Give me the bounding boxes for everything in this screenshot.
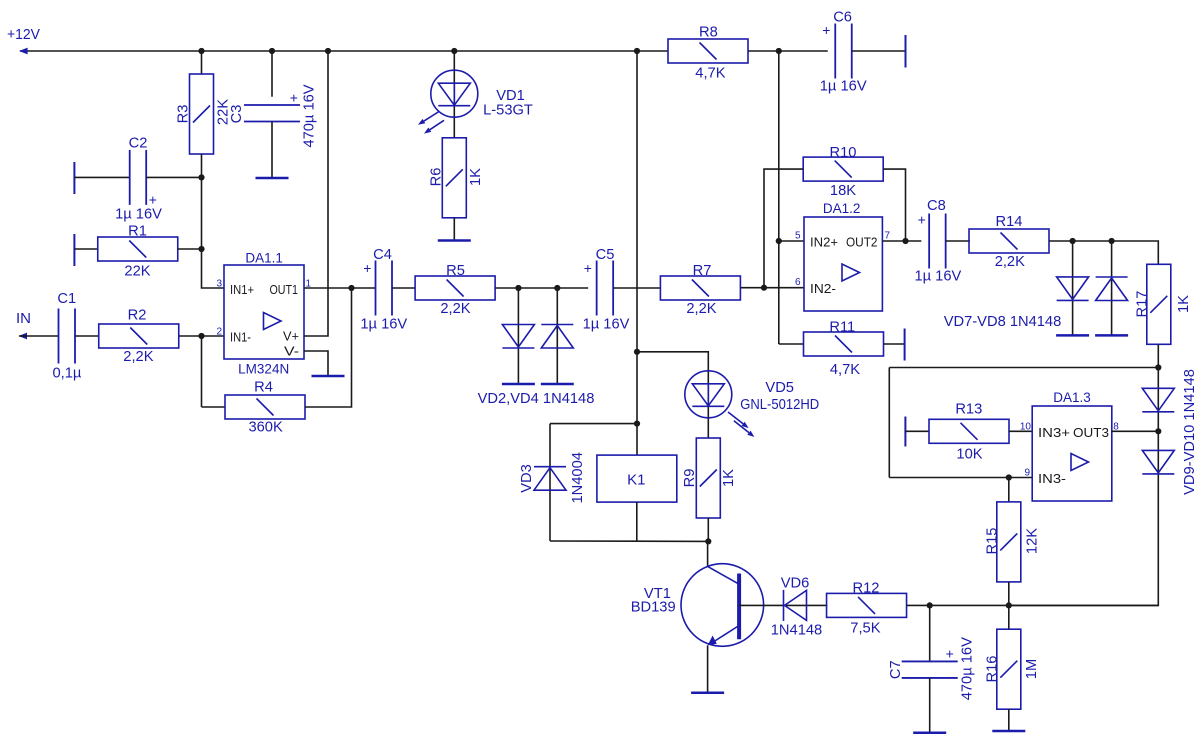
ground R6 — [438, 239, 471, 242]
value 0,1µ (C1) — [52, 366, 81, 382]
wire R2 to IN1- — [179, 335, 224, 337]
label C1 — [57, 291, 76, 307]
svg-text:R10: R10 — [830, 145, 857, 161]
value 7,5K (R12) — [850, 620, 880, 636]
svg-text:IN: IN — [16, 310, 31, 327]
resistor R10 — [803, 157, 883, 181]
value L-53GT (VD1) — [483, 103, 533, 119]
LED VD1 arrows — [418, 112, 444, 134]
wire stub to R1 — [74, 248, 98, 250]
svg-text:1K: 1K — [468, 168, 484, 186]
wire IN3- node to R15 — [1008, 478, 1010, 503]
svg-text:OUT1: OUT1 — [270, 282, 299, 297]
op-amp DA1.1 triangle — [264, 313, 282, 330]
value 1K (R6) — [468, 168, 484, 186]
ground C3 — [256, 177, 289, 180]
value 1µ 16V (C6) — [820, 79, 867, 95]
wire IN to C1 — [19, 335, 59, 337]
junction VD8 node — [1109, 238, 1115, 244]
terminal stub R11 — [904, 329, 906, 361]
svg-text:R14: R14 — [996, 214, 1023, 230]
LED VD5 arrows — [728, 412, 754, 437]
ground VD2 — [502, 383, 535, 386]
label R5 — [446, 263, 465, 279]
svg-text:R12: R12 — [853, 580, 880, 596]
pin label IN2+ — [810, 234, 838, 249]
wire R12 to node E — [907, 604, 1159, 606]
label R1 — [128, 224, 147, 240]
wire R11 left — [779, 343, 804, 345]
op-amp DA1.2 — [804, 217, 882, 311]
wire C7 to ground — [929, 678, 931, 733]
resistor R6 — [442, 138, 466, 218]
pin number 3 — [216, 279, 222, 290]
wire R6 to ground — [453, 218, 455, 241]
value 22K (R3) — [216, 99, 232, 125]
wire R1 to node B — [178, 248, 202, 250]
svg-text:DA1.3: DA1.3 — [1053, 390, 1091, 405]
label VD9-VD10 1N4148 — [1182, 369, 1198, 495]
label VD6 — [781, 575, 810, 591]
terminal stub R1 — [73, 234, 75, 266]
wire R7 to IN2- — [740, 287, 804, 289]
pin number 1 — [306, 279, 312, 290]
resistor R14 — [969, 229, 1049, 253]
ground VD4 — [541, 383, 574, 386]
label VD3 — [519, 464, 535, 493]
wire OUT1 — [304, 287, 376, 289]
svg-text:VD6: VD6 — [781, 575, 810, 591]
pin label V- — [284, 344, 299, 359]
svg-text:+: + — [946, 646, 954, 662]
wire R17 to node D — [1157, 344, 1159, 367]
wire OUT3 — [1112, 430, 1159, 432]
wire bottom — [550, 540, 708, 542]
diode VD6 — [784, 590, 807, 621]
wire C4 to R5 — [392, 287, 415, 289]
resistor R3 — [190, 74, 214, 154]
svg-text:C4: C4 — [373, 247, 392, 263]
label R9 — [682, 469, 698, 488]
value 18K (R10) — [830, 183, 856, 199]
junction OUT1 node — [348, 285, 354, 291]
node IN label — [16, 310, 31, 327]
svg-text:IN1-: IN1- — [230, 330, 251, 345]
svg-text:C8: C8 — [927, 198, 946, 214]
wire R14 to R17 — [1049, 241, 1158, 265]
value 1K (R9) — [721, 469, 737, 487]
wire C2 to node A — [146, 176, 201, 178]
wire rail to R3 — [201, 51, 203, 74]
svg-text:IN1+: IN1+ — [230, 282, 254, 297]
wire through VD3 — [549, 424, 551, 541]
svg-text:IN2-: IN2- — [810, 281, 836, 296]
value 360K (R4) — [248, 420, 283, 436]
svg-text:IN2+: IN2+ — [810, 234, 838, 249]
wire R15 to node E — [1008, 582, 1010, 606]
label R2 — [128, 308, 147, 324]
svg-text:R11: R11 — [829, 320, 855, 336]
ground VD7 — [1056, 334, 1089, 337]
pin number 9 — [1024, 468, 1030, 479]
svg-text:+: + — [822, 22, 830, 38]
junction node B — [198, 246, 204, 252]
label C3 — [229, 105, 245, 124]
svg-text:DA1.2: DA1.2 — [823, 201, 861, 216]
svg-text:+: + — [149, 191, 157, 207]
plus sign C3 — [290, 90, 298, 106]
svg-text:1µ 16V: 1µ 16V — [360, 317, 407, 333]
wire bias vertical — [778, 51, 780, 344]
label R3 — [176, 105, 192, 124]
junction VD2 node — [515, 285, 521, 291]
svg-text:R16: R16 — [985, 656, 1001, 683]
junction VD3 branch — [634, 421, 640, 427]
junction OUT3 node — [1155, 428, 1161, 434]
value 470µ 16V (C7) — [960, 637, 976, 700]
ground R16 — [992, 730, 1025, 733]
svg-text:360K: 360K — [248, 420, 283, 436]
node +12V label — [7, 26, 40, 43]
label R8 — [699, 24, 718, 40]
svg-text:DA1.1: DA1.1 — [245, 250, 283, 265]
svg-text:VD3: VD3 — [519, 464, 535, 493]
wire R16 to ground — [1008, 709, 1010, 731]
svg-text:+: + — [290, 90, 298, 106]
wire feedback left — [888, 368, 890, 478]
LED VD5 — [685, 371, 732, 418]
wire C8 to R14 — [946, 240, 970, 242]
svg-text:6: 6 — [795, 277, 801, 288]
wire through VD2 — [517, 288, 519, 384]
svg-text:BD139: BD139 — [631, 600, 676, 616]
resistor R12 — [827, 593, 907, 617]
label DA1.1 — [245, 250, 283, 265]
wire node C down — [201, 336, 203, 407]
label C6 — [833, 10, 852, 26]
wire emitter to ground — [707, 645, 709, 692]
svg-text:R9: R9 — [682, 469, 698, 488]
ground VT1 — [691, 692, 724, 695]
svg-text:2,2K: 2,2K — [440, 301, 470, 317]
ground C7 — [913, 731, 946, 734]
svg-text:470µ 16V: 470µ 16V — [960, 637, 976, 700]
label R12 — [853, 580, 880, 596]
value 2,2K (R2) — [123, 349, 153, 365]
svg-text:1N4004: 1N4004 — [570, 452, 586, 503]
terminal stub C2 — [73, 162, 75, 194]
svg-text:VD9-VD10 1N4148: VD9-VD10 1N4148 — [1182, 369, 1198, 495]
plus sign C8 — [918, 212, 926, 228]
capacitor C3 — [244, 105, 300, 122]
svg-text:C6: C6 — [833, 10, 852, 26]
capacitor C7 — [902, 661, 958, 678]
svg-text:R4: R4 — [254, 380, 273, 396]
label R4 — [254, 380, 273, 396]
pin label IN3- — [1038, 471, 1066, 486]
svg-text:IN3-: IN3- — [1038, 471, 1066, 486]
wire V+ to rail — [304, 51, 328, 336]
op-amp DA1.1 — [224, 265, 304, 359]
diode VD7 — [1057, 277, 1089, 301]
pin number 2 — [216, 327, 222, 338]
svg-text:GNL-5012HD: GNL-5012HD — [740, 397, 819, 413]
junction node E — [1006, 602, 1012, 608]
plus sign C7 — [946, 646, 954, 662]
resistor R7 — [660, 276, 740, 300]
pin label IN3+ — [1038, 425, 1070, 440]
wire K1 to bottom — [636, 502, 638, 541]
label C4 — [373, 247, 392, 263]
wire C3 to ground — [271, 122, 273, 179]
diode VD3 — [534, 467, 566, 491]
wire OUT2 — [882, 240, 921, 242]
resistor R4 — [225, 395, 305, 419]
IN arrowhead — [19, 333, 28, 340]
wire through VD9 VD10 — [1009, 368, 1159, 606]
terminal stub R13 — [904, 417, 906, 447]
diode VD9 — [1142, 388, 1174, 412]
value 10K (R13) — [956, 446, 982, 462]
capacitor C4 — [376, 261, 393, 316]
wire node C to R4 — [202, 406, 226, 408]
wire stub to R13 — [905, 430, 929, 432]
label R14 — [996, 214, 1023, 230]
svg-text:18K: 18K — [830, 183, 856, 199]
svg-text:R3: R3 — [176, 105, 192, 124]
value 1N4148 (VD6) — [771, 623, 822, 639]
label R10 — [830, 145, 857, 161]
junction rail-V+ — [325, 48, 331, 54]
junction rail-VD1 — [451, 48, 457, 54]
svg-text:470µ 16V: 470µ 16V — [302, 84, 318, 147]
junction C7 node — [927, 602, 933, 608]
resistor R11 — [804, 332, 884, 356]
capacitor C6 — [835, 24, 852, 79]
value 1µ 16V (C4) — [360, 317, 407, 333]
wire R11 right — [884, 343, 905, 345]
pin label V+ — [283, 329, 299, 344]
svg-text:22K: 22K — [124, 264, 150, 280]
svg-text:LM324N: LM324N — [238, 362, 289, 377]
label K1 — [627, 472, 645, 489]
op-amp DA1.3 triangle — [1071, 454, 1089, 471]
wire collector — [707, 541, 709, 566]
capacitor C1 — [59, 309, 76, 364]
label R17 — [1135, 291, 1151, 318]
wire main vertical — [636, 51, 638, 455]
resistor R17 — [1147, 264, 1171, 344]
wire node A down — [201, 177, 203, 249]
svg-text:7: 7 — [885, 231, 891, 242]
wire V- to ground — [304, 351, 328, 376]
svg-text:+12V: +12V — [7, 26, 40, 43]
label R11 — [829, 320, 855, 336]
junction node A — [198, 174, 204, 180]
wire C1 to R2 — [75, 335, 99, 337]
label R15 — [985, 528, 1001, 555]
resistor R1 — [98, 237, 178, 261]
value 12K (R15) — [1025, 528, 1041, 554]
plus sign C6 — [822, 22, 830, 38]
terminal stub C6 — [905, 35, 907, 68]
wire R10 left — [764, 169, 803, 288]
pin label OUT1 — [270, 282, 299, 297]
svg-text:R17: R17 — [1135, 291, 1151, 318]
value GNL-5012HD (VD5) — [740, 397, 819, 413]
junction IN2- node — [761, 285, 767, 291]
junction VD4 node — [554, 285, 560, 291]
svg-text:C2: C2 — [129, 136, 148, 152]
value 4,7K (R8) — [695, 66, 725, 82]
svg-text:OUT2: OUT2 — [846, 234, 878, 249]
wire rail to VD1 — [453, 51, 455, 138]
junction node D — [1155, 364, 1161, 370]
svg-text:12K: 12K — [1025, 528, 1041, 554]
svg-text:0,1µ: 0,1µ — [52, 366, 81, 382]
diode VD4 — [541, 325, 573, 349]
label C5 — [596, 247, 615, 263]
plus sign C4 — [363, 260, 371, 276]
wire stub to C2 — [74, 176, 129, 178]
svg-text:1µ 16V: 1µ 16V — [583, 317, 630, 333]
junction node C — [198, 333, 204, 339]
wire to VD3 — [550, 423, 637, 425]
wire to VD5 — [637, 352, 708, 439]
value 1K (R17) — [1176, 295, 1192, 313]
junction rail-R3 — [198, 48, 204, 54]
label C8 — [927, 198, 946, 214]
svg-text:C3: C3 — [229, 105, 245, 124]
svg-text:V+: V+ — [283, 329, 299, 344]
value 4,7K (R11) — [830, 362, 860, 378]
resistor R15 — [997, 502, 1021, 582]
label R6 — [429, 168, 445, 187]
wire node D to feedback — [889, 367, 1158, 369]
relay K1 — [597, 455, 677, 502]
svg-text:1N4148: 1N4148 — [771, 623, 822, 639]
wire R4 to OUT1 node — [305, 288, 352, 407]
value 2,2K (R7) — [686, 301, 716, 317]
svg-text:10: 10 — [1020, 421, 1032, 432]
svg-text:R7: R7 — [693, 263, 712, 279]
pin label IN1+ — [230, 282, 254, 297]
svg-text:2,2K: 2,2K — [123, 349, 153, 365]
svg-text:3: 3 — [216, 279, 222, 290]
svg-text:R2: R2 — [128, 308, 147, 324]
plus sign C5 — [584, 260, 592, 276]
resistor R2 — [99, 324, 179, 348]
svg-text:OUT3: OUT3 — [1073, 425, 1109, 440]
pin number 8 — [1113, 421, 1119, 432]
label LM324N — [238, 362, 289, 377]
resistor R5 — [415, 276, 495, 300]
wire R13 to IN3+ — [1009, 430, 1032, 432]
value 1µ 16V (C8) — [914, 269, 961, 285]
svg-text:R5: R5 — [446, 263, 465, 279]
capacitor C2 — [130, 150, 147, 205]
svg-text:C1: C1 — [57, 291, 76, 307]
transistor VT1 — [681, 564, 764, 647]
pin number 7 — [885, 231, 891, 242]
svg-text:+: + — [918, 212, 926, 228]
svg-text:R8: R8 — [699, 24, 718, 40]
label C2 — [129, 136, 148, 152]
svg-text:R13: R13 — [955, 402, 982, 418]
wire through VD7 — [1072, 241, 1074, 335]
plus sign C2 — [149, 191, 157, 207]
label R16 — [985, 656, 1001, 683]
label VD2,VD4 1N4148 — [478, 391, 595, 407]
svg-text:VD5: VD5 — [765, 380, 794, 396]
wire to IN2+ — [779, 240, 804, 242]
value 2,2K (R14) — [995, 254, 1025, 270]
svg-text:10K: 10K — [956, 446, 982, 462]
svg-text:VD2,VD4 1N4148: VD2,VD4 1N4148 — [478, 391, 595, 407]
value 470µ 16V (C3) — [302, 84, 318, 147]
svg-text:IN3+: IN3+ — [1038, 425, 1070, 440]
svg-text:C7: C7 — [888, 660, 904, 679]
label C7 — [888, 660, 904, 679]
svg-text:V-: V- — [284, 344, 299, 359]
value 2,2K (R5) — [440, 301, 470, 317]
wire feedback bottom — [889, 477, 1032, 479]
svg-text:1K: 1K — [1176, 295, 1192, 313]
svg-text:7,5K: 7,5K — [850, 620, 880, 636]
wire R8 to C6 — [748, 50, 828, 52]
junction OUT2 node — [902, 238, 908, 244]
junction R8-C6 node — [776, 48, 782, 54]
label DA1.2 — [823, 201, 861, 216]
wire node E to R16 — [1008, 605, 1010, 629]
LED VD1 — [431, 70, 478, 117]
label R13 — [955, 402, 982, 418]
svg-text:+: + — [363, 260, 371, 276]
ground VD8 — [1095, 334, 1128, 337]
label VD7-VD8 1N4148 — [944, 314, 1062, 330]
junction IN3- node — [1006, 474, 1012, 480]
svg-text:C5: C5 — [596, 247, 615, 263]
wire R3 to node A — [201, 154, 203, 177]
junction rail-C3 — [269, 48, 275, 54]
label R7 — [693, 263, 712, 279]
value 1N4004 (VD3) — [570, 452, 586, 503]
value 1µ 16V (C5) — [583, 317, 630, 333]
capacitor C5 — [597, 261, 614, 316]
wire C6 to stub — [852, 50, 906, 52]
label VD5 — [765, 380, 794, 396]
diode VD2 — [502, 325, 534, 349]
svg-text:L-53GT: L-53GT — [483, 103, 533, 119]
resistor R16 — [997, 629, 1021, 709]
op-amp DA1.2 triangle — [842, 264, 860, 281]
pin number 10 — [1020, 421, 1032, 432]
label VT1 — [644, 586, 671, 602]
junction IN2+ node — [776, 238, 782, 244]
svg-text:1µ 16V: 1µ 16V — [115, 207, 162, 223]
wire base through VD6 — [739, 604, 827, 606]
pin label IN1- — [230, 330, 251, 345]
svg-text:K1: K1 — [627, 472, 645, 489]
pin label OUT3 — [1073, 425, 1109, 440]
svg-text:4,7K: 4,7K — [830, 362, 860, 378]
wire rail to C3 — [271, 51, 273, 97]
wire node B to IN1+ — [202, 249, 225, 288]
junction VD5 branch — [634, 349, 640, 355]
svg-text:2,2K: 2,2K — [995, 254, 1025, 270]
resistor R8 — [668, 39, 748, 63]
pin number 5 — [795, 231, 801, 242]
